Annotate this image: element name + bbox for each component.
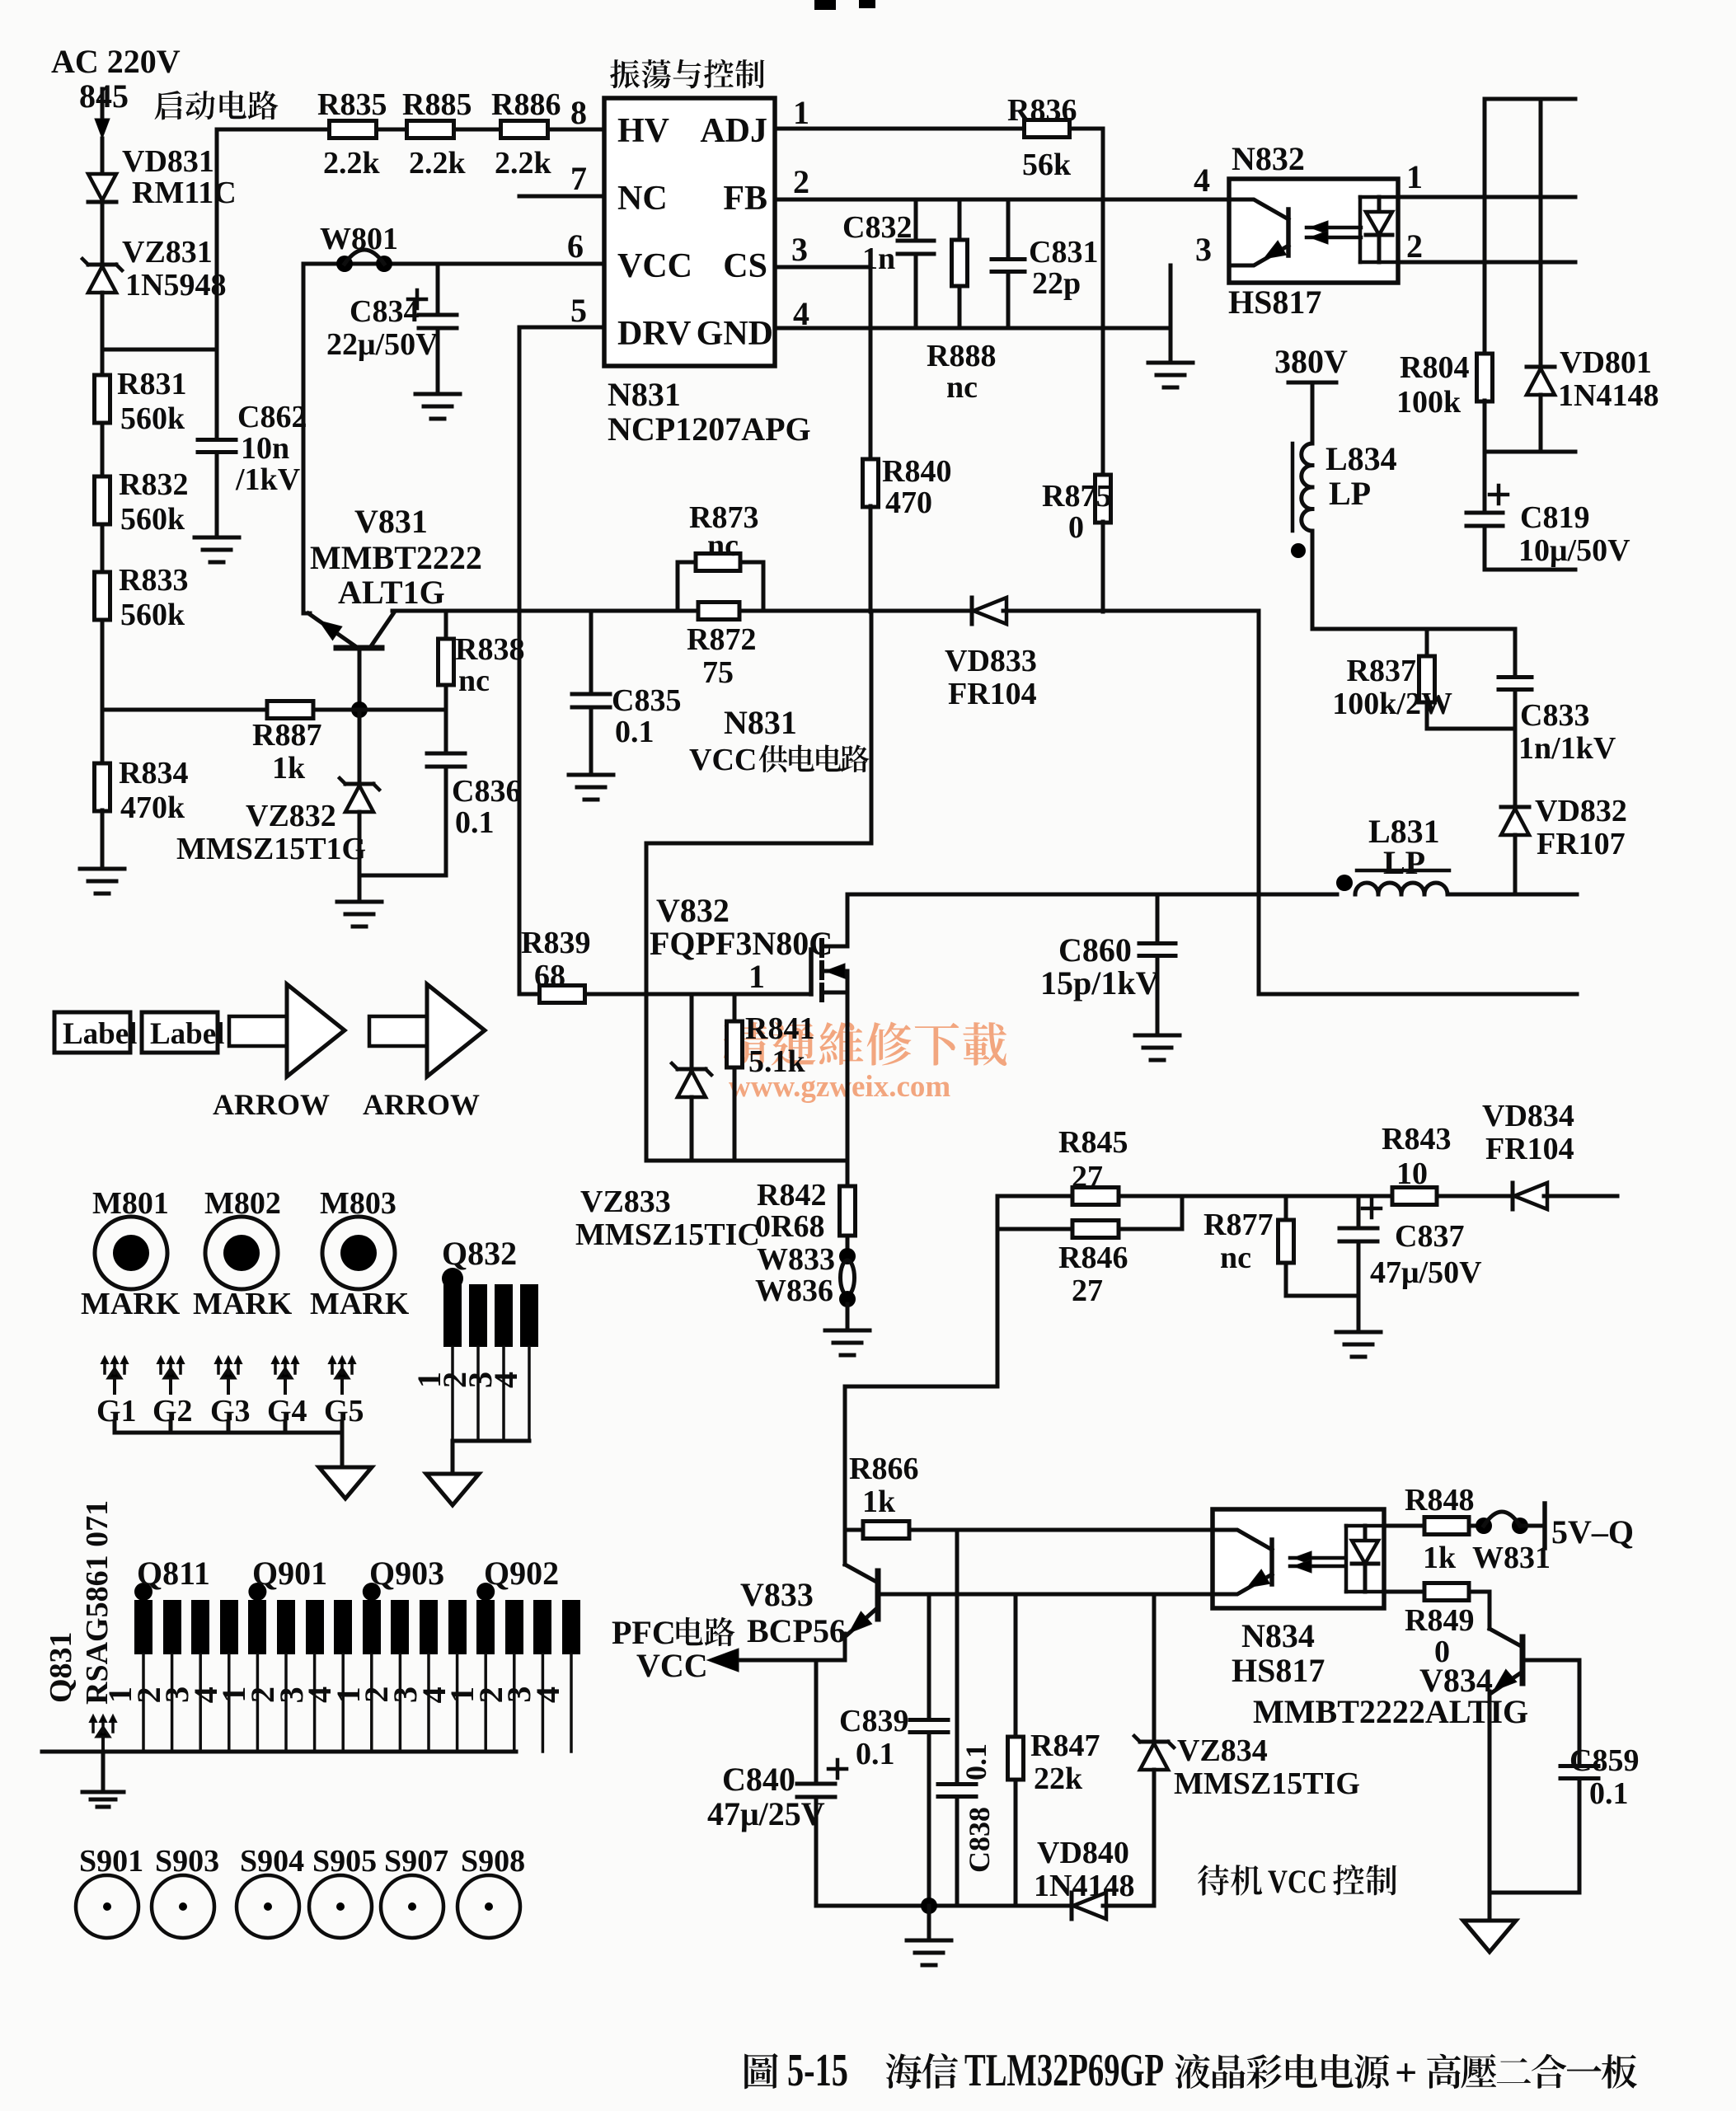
svg-text:R885: R885 (402, 87, 472, 122)
resistor R842 (755, 1178, 856, 1244)
svg-text:47μ/25V: 47μ/25V (707, 1795, 825, 1832)
jumper W801 (320, 222, 398, 272)
wire DRV pin5 down to R839 (519, 292, 604, 994)
diode VD801 (1527, 345, 1659, 413)
wire junction to R831 (101, 349, 105, 375)
svg-text:N831: N831 (724, 704, 797, 741)
wire C862 to ground (215, 453, 219, 537)
svg-text:ARROW: ARROW (363, 1088, 480, 1121)
optocoupler N834 HS817 (1213, 1509, 1384, 1689)
resistor R888 (927, 199, 996, 405)
svg-text:C834: C834 (350, 294, 419, 329)
svg-text:S904: S904 (240, 1844, 304, 1879)
svg-text:C819: C819 (1520, 500, 1589, 535)
capacitor C835 (572, 611, 681, 775)
wire VZ832 to ground (358, 875, 362, 902)
svg-text:BCP56: BCP56 (747, 1612, 846, 1649)
svg-text:S901: S901 (79, 1844, 143, 1879)
wire V833 emitter down (843, 1634, 847, 1660)
optocoupler N832 HS817 (1228, 140, 1398, 321)
resistor R846 (997, 1196, 1182, 1308)
box V832 outline (646, 843, 871, 1161)
svg-text:C835: C835 (612, 683, 681, 718)
wire pin7 stub NC (519, 195, 604, 199)
scan speck (814, 0, 875, 10)
diode VD832 (1501, 794, 1627, 861)
wire PFC VCC line (707, 1649, 845, 1672)
mark M801 (81, 1186, 181, 1321)
svg-text:6: 6 (567, 228, 584, 265)
svg-text:N834: N834 (1241, 1617, 1315, 1654)
svg-text:0R68: 0R68 (755, 1209, 824, 1244)
svg-text:0: 0 (1068, 510, 1084, 545)
node AC 220V label (51, 43, 181, 115)
wire R866 to N834 pin4 (909, 1528, 1213, 1532)
node 380V (1274, 343, 1348, 382)
svg-text:HS817: HS817 (1228, 284, 1321, 321)
svg-text:Q901: Q901 (252, 1555, 327, 1592)
wire R831-R832 (101, 423, 105, 476)
svg-text:R875: R875 (1042, 479, 1111, 514)
svg-text:S903: S903 (155, 1844, 219, 1879)
inductor L834 primary (1291, 440, 1397, 558)
node 5V-Q terminal (1545, 1504, 1634, 1550)
wire R837-C833 top rail (1312, 627, 1515, 631)
svg-text:LP: LP (1329, 475, 1371, 512)
svg-text:R831: R831 (117, 367, 186, 401)
svg-text:380V: 380V (1274, 343, 1348, 380)
resistor R804 (1396, 350, 1493, 420)
resistor R872 (678, 603, 763, 691)
capacitor C862 (198, 349, 307, 497)
diode VD833 (945, 598, 1037, 711)
diode VD834 (1482, 1099, 1574, 1209)
svg-text:VCC: VCC (636, 1647, 708, 1684)
svg-text:R834: R834 (119, 756, 188, 790)
node base junction dot (351, 701, 368, 718)
svg-text:R838: R838 (455, 632, 524, 667)
svg-text:1: 1 (1406, 158, 1423, 195)
wire CS down to R840 (869, 267, 873, 460)
wire VD801 column (1539, 99, 1543, 366)
svg-text:HS817: HS817 (1232, 1652, 1325, 1689)
svg-text:R847: R847 (1030, 1729, 1100, 1763)
svg-text:C860: C860 (1058, 931, 1132, 969)
svg-text:W836: W836 (755, 1274, 833, 1308)
wire C834 to ground (436, 328, 440, 394)
zener VZ832 (176, 710, 379, 866)
wire V834 emitter down (1488, 1691, 1492, 1921)
svg-text:VD834: VD834 (1482, 1099, 1574, 1133)
svg-text:R839: R839 (521, 926, 590, 960)
pin symbol on Q831 bus (90, 1715, 116, 1792)
ground triangle under G bus (319, 1467, 372, 1499)
svg-text:5: 5 (570, 292, 587, 329)
svg-text:0.1: 0.1 (959, 1743, 992, 1780)
svg-text:TLM32P69GP: TLM32P69GP (964, 2045, 1164, 2096)
wire VCC pin6 line (303, 262, 604, 266)
svg-text:RM11C: RM11C (132, 176, 237, 210)
svg-text:10n: 10n (241, 431, 289, 466)
svg-text:Q832: Q832 (442, 1235, 517, 1272)
svg-text:V832: V832 (656, 892, 730, 929)
svg-text:15p/1kV: 15p/1kV (1040, 964, 1160, 1002)
capacitor C859 (1560, 1743, 1639, 1893)
wire R832-R833 (101, 524, 105, 574)
svg-text:27: 27 (1072, 1274, 1103, 1308)
svg-text:MMSZ15T1G: MMSZ15T1G (176, 832, 366, 866)
svg-text:560k: 560k (120, 598, 185, 632)
symbol arrow 2 (363, 984, 485, 1121)
svg-text:R872: R872 (687, 622, 756, 657)
svg-text:V831: V831 (354, 503, 428, 540)
svg-text:68: 68 (534, 959, 565, 993)
svg-text:1n: 1n (862, 242, 895, 276)
svg-text:100k/2W: 100k/2W (1332, 687, 1452, 721)
wire junction to ground (927, 1906, 931, 1940)
ground triangle under Q832 (426, 1474, 479, 1505)
capacitor C837 (1340, 1196, 1482, 1332)
svg-text:560k: 560k (120, 401, 185, 436)
svg-text:FR104: FR104 (1485, 1132, 1574, 1166)
wire ADJ pin1 line (775, 127, 1025, 131)
resistor R886 (491, 87, 561, 181)
zener VZ834 (1134, 1594, 1360, 1906)
svg-text:R833: R833 (119, 563, 188, 598)
svg-text:FQPF3N80C: FQPF3N80C (650, 925, 833, 962)
resistor R875 (1042, 328, 1111, 612)
watermark (724, 1022, 1007, 1104)
resistor R848 (1384, 1483, 1474, 1575)
wire GND pin4 rail (775, 326, 1171, 331)
label standby VCC control (1198, 1863, 1396, 1900)
svg-text:R840: R840 (882, 454, 951, 489)
svg-text:PFC: PFC (612, 1614, 676, 1651)
svg-text:100k: 100k (1396, 385, 1462, 420)
svg-text:1k: 1k (862, 1485, 896, 1519)
svg-text:R877: R877 (1203, 1208, 1273, 1242)
wire CS pin3 line (775, 265, 870, 270)
svg-text:nc: nc (946, 370, 978, 405)
wire CS node down to V832 box (870, 611, 874, 843)
wire C859 bottom link (1490, 1891, 1579, 1895)
svg-text:VD840: VD840 (1037, 1836, 1129, 1870)
wire lower rail (1259, 992, 1577, 997)
svg-text:S905: S905 (312, 1844, 377, 1879)
jumper W831 (1469, 1512, 1551, 1575)
svg-text:1k: 1k (272, 751, 306, 786)
resistor R841 (727, 994, 815, 1161)
wire R886 to pin8 (548, 94, 604, 131)
svg-text:470k: 470k (120, 790, 185, 825)
resistor R877 (1203, 1196, 1294, 1296)
wire V831 collector rail (392, 609, 678, 613)
wire opto pin3 drop to ground (1169, 265, 1173, 363)
svg-text:VCC: VCC (1268, 1863, 1327, 1900)
wire bottom rail (816, 1904, 1072, 1908)
resistor R836 (1007, 93, 1077, 182)
ground under N832 pin3 (1148, 363, 1193, 387)
capacitor C839 (839, 1594, 948, 1906)
resistor R837 (1332, 629, 1452, 721)
svg-text:R848: R848 (1405, 1483, 1474, 1518)
wire junction to startup rail riser (102, 348, 217, 352)
svg-text:R845: R845 (1058, 1125, 1128, 1160)
svg-text:4: 4 (1194, 162, 1210, 199)
resistor R835 (317, 87, 387, 181)
ground triangle under V834 (1463, 1921, 1516, 1952)
label 振荡与控制 (610, 59, 764, 89)
ground under C860 (1135, 1035, 1180, 1060)
resistor R873 parallel branch (678, 500, 763, 611)
capacitor C838 (938, 1530, 996, 1906)
ground under W836 (825, 1330, 870, 1355)
wire startup rail to R835 (217, 128, 330, 132)
transistor V834 MMBT2222ALTIG (1253, 1629, 1528, 1730)
svg-text:R835: R835 (317, 87, 387, 122)
diode VD831 (88, 144, 237, 210)
svg-text:R849: R849 (1405, 1603, 1474, 1638)
capacitor C836 (427, 710, 521, 875)
wire R834 to ground (101, 810, 105, 869)
svg-text:22μ/50V: 22μ/50V (326, 327, 439, 362)
svg-text:C840: C840 (722, 1761, 795, 1798)
svg-text:L834: L834 (1325, 440, 1397, 477)
transistor V831 MMBT2222 (303, 503, 482, 648)
wire R887 to C836 column (313, 708, 446, 712)
svg-text:Q903: Q903 (369, 1555, 444, 1592)
wire top-right rail (1485, 97, 1575, 101)
wire R839 to gate (585, 992, 811, 997)
wire drain rail (847, 893, 1337, 897)
wire VZ831 to junction (101, 293, 105, 351)
svg-text:10μ/50V: 10μ/50V (1518, 533, 1630, 568)
ground under C834 (415, 394, 460, 419)
wire R843 to VD834 (1437, 1194, 1513, 1199)
svg-text:MMBT2222: MMBT2222 (310, 539, 482, 576)
wire pin2 line right (1398, 260, 1575, 265)
op-amp U1 IC N831 NCP1207APG box (604, 98, 775, 366)
svg-text:Label: Label (150, 1017, 224, 1051)
svg-text:AC 220V: AC 220V (51, 43, 181, 80)
svg-text:MMBT2222ALTIG: MMBT2222ALTIG (1253, 1693, 1528, 1730)
svg-text:R837: R837 (1347, 654, 1416, 688)
svg-text:RSAG5861 071: RSAG5861 071 (80, 1500, 115, 1705)
wire VD832 to L831 rail (1513, 835, 1518, 894)
label PFC circuit VCC (612, 1614, 734, 1684)
svg-text:C836: C836 (452, 774, 521, 809)
svg-text:1n/1kV: 1n/1kV (1518, 731, 1616, 766)
svg-text:MARK: MARK (81, 1287, 181, 1321)
svg-text:GND: GND (697, 315, 773, 353)
resistor R843 (1382, 1122, 1451, 1205)
svg-text:ALT1G: ALT1G (338, 574, 445, 611)
svg-text:S907: S907 (384, 1844, 448, 1879)
wire G bus (115, 1423, 342, 1467)
svg-text:5.1k: 5.1k (748, 1044, 806, 1079)
resistor R845 (997, 1125, 1182, 1205)
wire V834 collector to C859 (1524, 1660, 1579, 1764)
svg-text:R841: R841 (745, 1011, 814, 1046)
svg-text:1N4148: 1N4148 (1034, 1869, 1134, 1903)
pins G1-G5 (96, 1357, 364, 1428)
wire rail to VD833 (763, 609, 973, 613)
svg-text:C831: C831 (1029, 235, 1098, 270)
wire R849 to V834 collector (1469, 1592, 1490, 1629)
svg-text:W831: W831 (1472, 1541, 1551, 1575)
wire VD831 to VZ831 (101, 202, 105, 264)
svg-text:/1kV: /1kV (235, 462, 301, 497)
svg-text:560k: 560k (120, 502, 185, 537)
resistor R840 (863, 454, 952, 520)
ground under VZ832 (337, 902, 382, 926)
wire R885-R886 (454, 128, 501, 132)
label V832 FQPF3N80C (650, 892, 833, 995)
svg-text:8: 8 (570, 94, 587, 131)
capacitor C819 (1466, 452, 1630, 568)
wire mid rail (1485, 450, 1575, 454)
svg-text:2.2k: 2.2k (323, 146, 381, 181)
svg-text:R804: R804 (1400, 350, 1469, 385)
wire VD833 to corner (1003, 609, 1259, 613)
svg-text:VZ832: VZ832 (246, 799, 336, 833)
svg-text:5-15: 5-15 (787, 2045, 848, 2096)
svg-text:CS: CS (723, 247, 767, 285)
svg-text:0.1: 0.1 (455, 805, 495, 840)
wire R840 to VD833 line (869, 506, 873, 612)
svg-text:FR107: FR107 (1537, 827, 1626, 861)
svg-text:5V–Q: 5V–Q (1551, 1513, 1634, 1550)
svg-text:1N5948: 1N5948 (125, 268, 226, 303)
wire R845 node to R843 (1182, 1194, 1393, 1199)
svg-text:nc: nc (458, 664, 490, 698)
diode VD840 (1034, 1836, 1134, 1919)
svg-text:4: 4 (529, 1686, 566, 1703)
label N831 NCP1207APG (608, 376, 811, 448)
resistor R849 (1384, 1583, 1474, 1670)
label 启动电路 (155, 91, 279, 120)
capacitor C834 (326, 264, 457, 362)
capacitor C832 (842, 199, 934, 276)
resistor R833 (95, 563, 189, 632)
ground under C835 (569, 775, 613, 800)
svg-text:0.1: 0.1 (615, 715, 655, 749)
svg-text:W833: W833 (757, 1242, 835, 1277)
resistor R839 (519, 926, 590, 1003)
label box Label 1 (54, 1012, 137, 1053)
svg-text:R846: R846 (1058, 1241, 1128, 1275)
wire L834 to R837 rail (1311, 531, 1315, 629)
svg-text:C838: C838 (963, 1807, 996, 1873)
wire VD840 to VZ834 (1103, 1904, 1154, 1908)
mark M803 (310, 1186, 410, 1321)
svg-text:Q811: Q811 (137, 1555, 210, 1592)
svg-text:2: 2 (793, 163, 809, 200)
svg-text:R887: R887 (252, 718, 321, 753)
svg-text:VZ833: VZ833 (580, 1185, 671, 1219)
svg-text:56k: 56k (1022, 148, 1072, 182)
svg-text:+: + (1395, 2051, 1417, 2095)
ground under Q831 bus (82, 1792, 124, 1807)
svg-text:VZ834: VZ834 (1177, 1733, 1268, 1768)
wire R804 column top (1483, 99, 1487, 354)
svg-text:R866: R866 (849, 1452, 918, 1486)
connector Q831 (42, 1500, 580, 1752)
zener VZ831 (82, 235, 226, 303)
wire 380V to L834 (1311, 382, 1315, 443)
svg-text:R842: R842 (757, 1178, 826, 1213)
wire VCC riser to V831 emitter (302, 264, 306, 613)
connector Q832 (411, 1235, 538, 1474)
test points S901-S908 (76, 1844, 525, 1938)
wire R833 to R887 node (101, 620, 105, 766)
wire AC to VD831 (101, 138, 105, 173)
resistor R832 (95, 467, 189, 537)
svg-text:7: 7 (570, 160, 587, 197)
svg-text:1: 1 (793, 94, 809, 131)
svg-text:DRV: DRV (617, 315, 692, 353)
svg-text:VCC: VCC (617, 247, 692, 285)
resistor R847 (1008, 1594, 1100, 1906)
resistor R831 (95, 367, 187, 436)
capacitor C860 (1040, 894, 1175, 1035)
svg-text:MARK: MARK (310, 1287, 410, 1321)
svg-text:4: 4 (487, 1372, 524, 1388)
svg-text:10: 10 (1396, 1156, 1428, 1191)
wire source down through box (846, 992, 850, 1186)
svg-text:MARK: MARK (193, 1287, 293, 1321)
capacitor C831 (992, 199, 1098, 328)
svg-text:2.2k: 2.2k (495, 146, 552, 181)
wire VD834 right stub (1544, 1194, 1617, 1199)
wire R845 left riser (845, 1196, 997, 1564)
wire bottom stub rail (1485, 568, 1575, 572)
symbol arrow 1 (213, 984, 345, 1121)
svg-text:22p: 22p (1032, 266, 1081, 301)
svg-text:0.1: 0.1 (1589, 1776, 1629, 1811)
resistor R866 (845, 1452, 918, 1539)
transistor V832 MOSFET (811, 894, 847, 1000)
wire VZ832 to bottom link (358, 812, 362, 875)
wire corner down to lower rail (1257, 611, 1261, 994)
svg-text:MMSZ15TIG: MMSZ15TIG (1174, 1766, 1360, 1801)
ground under C862 (195, 537, 239, 562)
wire R877 link to C837 (1286, 1294, 1358, 1298)
svg-text:MMSZ15TIC: MMSZ15TIC (575, 1217, 760, 1252)
svg-text:22k: 22k (1034, 1762, 1083, 1796)
svg-text:VCC: VCC (689, 743, 757, 777)
svg-text:ARROW: ARROW (213, 1088, 330, 1121)
svg-text:C862: C862 (237, 400, 307, 434)
svg-text:470: 470 (885, 486, 932, 520)
svg-text:S908: S908 (461, 1844, 525, 1879)
capacitor C840 (707, 1660, 847, 1906)
svg-text:V833: V833 (740, 1576, 814, 1613)
resistor R834 (95, 756, 189, 825)
svg-text:VD833: VD833 (945, 644, 1037, 678)
resistor R885 (402, 87, 472, 181)
transistor V833 BCP56 (740, 1564, 878, 1649)
resistor R838 (439, 611, 525, 710)
svg-text:C832: C832 (842, 210, 912, 245)
caption figure 5-15 (744, 2045, 1637, 2096)
ground main bottom (907, 1940, 951, 1965)
svg-text:C837: C837 (1395, 1219, 1464, 1254)
node ground junction dot (921, 1898, 937, 1914)
svg-text:VZ831: VZ831 (122, 235, 213, 270)
ground under R834 (80, 869, 124, 894)
wire AC input arrow (95, 89, 110, 138)
